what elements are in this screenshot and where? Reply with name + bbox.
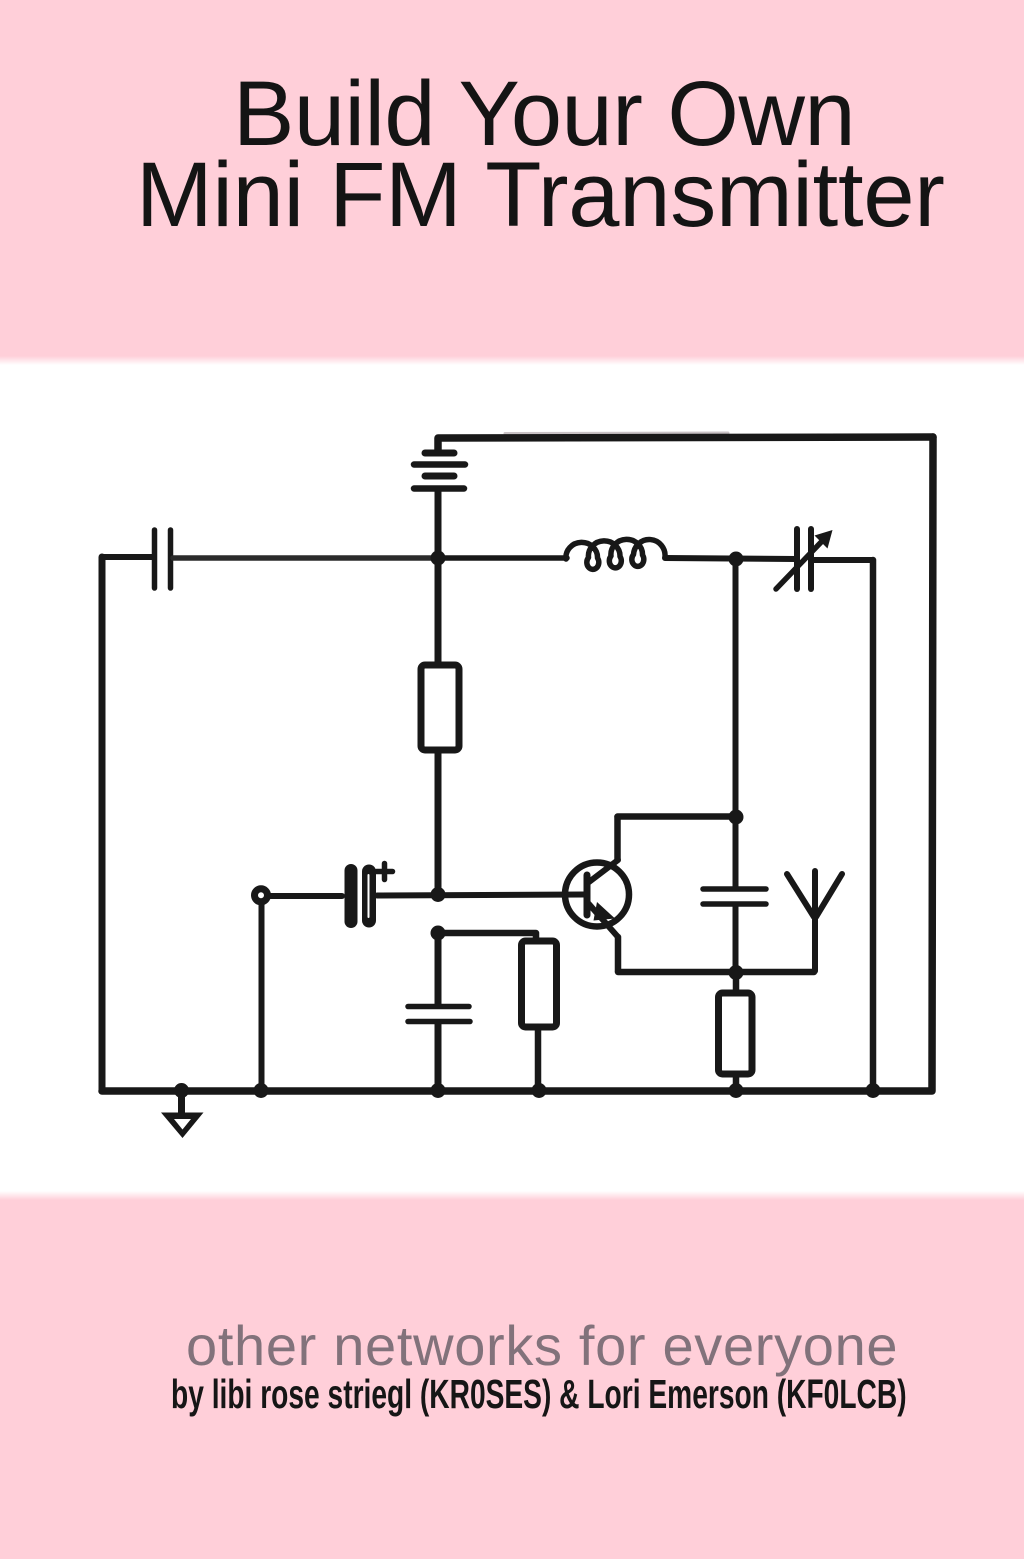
wire: C2 to ground bus (435, 1023, 442, 1090)
capacitor C1 (155, 530, 171, 588)
wire: C3 to base node and on to Q1 base (377, 895, 584, 896)
junction: emitter bus / R2 (729, 965, 744, 980)
wire: left vertical (99, 557, 106, 1091)
resistor R2 (719, 973, 753, 1090)
junction: base node (431, 887, 446, 902)
resistor R3 (522, 941, 557, 1090)
wire: C5 to right corner (813, 557, 873, 563)
wire: main bus L1 to C5 (665, 558, 796, 559)
capacitor C4 (703, 889, 766, 904)
wire: collector lead up (614, 817, 621, 859)
wire: bias node to R3 (438, 933, 536, 941)
wire: feed vertical to C4 (733, 817, 739, 887)
wire: marker smudge above top bus (505, 432, 728, 436)
wire: emitter lead down (615, 937, 622, 971)
ground (161, 1091, 204, 1138)
antenna (787, 871, 842, 971)
wire: input terminal to C3 (268, 893, 342, 899)
junction: C2 / ground bus (431, 1083, 446, 1098)
junction: input leg / ground bus (254, 1083, 269, 1098)
junction: ground stub / ground bus (174, 1083, 189, 1098)
junction: main bus / oscillator feed (729, 552, 744, 567)
wire: emitter bus to antenna (618, 969, 814, 976)
wire: input terminal down leg (259, 903, 265, 1090)
junction: R2 / ground bus (729, 1083, 744, 1098)
junction: battery / main bus (431, 551, 446, 566)
wire: main bus left of C1 (102, 554, 152, 560)
wire: collector top wire (618, 813, 736, 820)
wire: right outer vertical (932, 437, 933, 1090)
inductor L1 (566, 539, 665, 569)
junction: right inner vertical / ground bus (866, 1083, 881, 1098)
node: audio input terminal (255, 889, 268, 902)
wire: center vertical to C2 (435, 939, 442, 1004)
transistor Q1 (565, 860, 629, 937)
capacitor C3 (electrolytic) (351, 864, 393, 922)
junction: collector / tank feed (729, 810, 744, 825)
wire: C4 to emitter bus (733, 906, 739, 971)
wire: top supply bus (438, 437, 933, 451)
wire: bottom ground bus (102, 1087, 932, 1095)
wire: oscillator feed vertical upper (733, 559, 739, 816)
wire: right inner vertical (tank to ground bus) (870, 560, 877, 1090)
wire: main bus C1 to L1 (173, 555, 434, 561)
variable capacitor C5 (776, 529, 833, 589)
battery B1 (414, 453, 465, 558)
capacitor C2 (408, 1007, 470, 1022)
junction: base bias node (431, 926, 446, 941)
resistor R1 (421, 561, 459, 893)
junction: R3 / ground bus (532, 1083, 547, 1098)
